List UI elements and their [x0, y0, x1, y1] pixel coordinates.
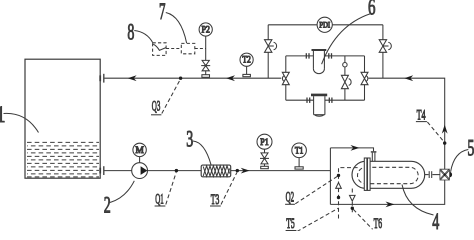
- label T5: [286, 216, 297, 232]
- dashed impulse line 8 to 7: [166, 48, 181, 50]
- instrument P1 with gauge valve: [257, 134, 272, 169]
- junction dot T4: [443, 141, 446, 144]
- label T3: [210, 192, 221, 208]
- tank liquid fill: [27, 142, 99, 177]
- label Q3: [151, 98, 161, 115]
- leader T3 (dashed): [221, 172, 237, 204]
- filter F-lower: [311, 95, 327, 116]
- probe arrow (hollow, up): [336, 183, 342, 189]
- leader T6 (dashed): [353, 209, 372, 229]
- valve V-filter-left: [282, 72, 289, 84]
- leader T5 (dashed): [297, 208, 339, 231]
- junction dot Q1: [175, 169, 178, 172]
- filter F-upper (element 6): [312, 50, 327, 74]
- wire heater to chamber: [231, 170, 331, 172]
- instrument T2: [240, 53, 253, 77]
- svg-text:Q3: Q3: [152, 98, 161, 114]
- vessel top nozzle: [371, 151, 377, 161]
- wire filter loop left vertical: [285, 56, 287, 100]
- svg-text:PDI: PDI: [319, 21, 330, 30]
- leader T4 (dashed): [427, 122, 444, 142]
- flow arrow left 2: [226, 75, 235, 81]
- svg-text:5: 5: [467, 136, 474, 161]
- vessel outlet nozzle: [425, 171, 440, 178]
- tank T (reservoir shell): [25, 59, 100, 178]
- valve V-filter-right: [361, 72, 368, 84]
- filter F-upper flanges: [306, 53, 331, 58]
- label Q2: [285, 189, 295, 205]
- wire filter loop lower branch: [286, 99, 365, 101]
- component 8 (dashed box with diagonal): [153, 43, 167, 56]
- wire return pipe left: [105, 77, 282, 79]
- vessel 4 shell: [352, 161, 425, 188]
- svg-text:P2: P2: [201, 24, 210, 34]
- wire return pipe right: [369, 78, 445, 169]
- wire bypass left vertical: [267, 25, 269, 78]
- svg-text:T1: T1: [295, 145, 304, 155]
- svg-text:T2: T2: [242, 55, 251, 65]
- dashed probe line into vessel: [339, 168, 359, 219]
- wire top feed to vessel: [330, 148, 373, 151]
- label 6 leader: [322, 14, 371, 64]
- label 3 leader: [193, 141, 211, 165]
- svg-text:T4: T4: [417, 107, 426, 123]
- svg-text:4: 4: [432, 209, 439, 231]
- flow arrow up: [442, 125, 448, 134]
- label T4: [416, 107, 427, 123]
- svg-text:Q1: Q1: [155, 192, 164, 208]
- svg-text:M: M: [135, 146, 144, 156]
- wire bypass loop top: [268, 24, 383, 26]
- flow arrow left 1: [128, 75, 137, 81]
- wire pump to heater: [147, 170, 201, 172]
- valve V-vent: [341, 75, 351, 88]
- pump 2 with motor M: [132, 143, 148, 178]
- flow arrow right 1: [241, 168, 250, 174]
- valve V-bypass-right: [379, 40, 391, 53]
- junction dot Q3: [179, 77, 182, 80]
- wire filter loop upper branch: [286, 55, 365, 57]
- junction dot T6: [351, 207, 354, 210]
- vent sight glass circle: [343, 62, 347, 66]
- flow arrow right 3: [386, 202, 395, 208]
- svg-text:Q2: Q2: [286, 189, 295, 205]
- vessel inner liner (dashed): [358, 167, 419, 183]
- instrument P2 with gauge valve: [199, 23, 212, 77]
- filter F-lower flanges: [307, 98, 332, 103]
- svg-text:P1: P1: [260, 137, 269, 147]
- junction dot T5: [337, 196, 340, 199]
- svg-text:8: 8: [127, 19, 134, 44]
- vessel flange plates: [364, 158, 370, 190]
- drain arrow (hollow, down): [350, 195, 356, 201]
- svg-text:1: 1: [0, 102, 6, 127]
- flow arrow left 3: [404, 75, 413, 81]
- wire left manifold vertical: [329, 148, 331, 205]
- wire valve5 bottom to bottom manifold: [330, 180, 444, 204]
- wire vent stub: [344, 56, 346, 100]
- dashed drain line below vessel: [351, 189, 353, 215]
- junction dot T3: [236, 169, 239, 172]
- svg-text:2: 2: [104, 192, 111, 217]
- svg-text:T5: T5: [286, 216, 295, 231]
- label T6: [374, 216, 383, 232]
- label 5 leader: [451, 150, 469, 172]
- label 1 leader: [4, 113, 39, 132]
- label 7 leader: [166, 13, 187, 44]
- instrument PDI: [317, 17, 332, 32]
- wire suction pipe: [104, 170, 132, 172]
- label 4 leader: [402, 185, 434, 216]
- svg-text:3: 3: [186, 126, 193, 151]
- valve V-bypass-left: [265, 40, 277, 53]
- label 8 leader: [134, 31, 153, 43]
- svg-text:T6: T6: [374, 216, 383, 231]
- flow arrow right 2: [351, 145, 360, 151]
- dashed impulse line 7 to P2: [195, 48, 206, 50]
- instrument T1: [292, 143, 307, 169]
- leader Q2 (dashed): [295, 176, 337, 203]
- label 2 leader: [110, 181, 134, 203]
- component 7 (dashed box): [181, 43, 195, 53]
- valve 5 (four-way): [440, 169, 452, 180]
- svg-text:6: 6: [368, 0, 376, 20]
- leader Q1 (dashed): [166, 172, 176, 204]
- junction dot Q2: [337, 174, 340, 177]
- wire filter loop right vertical: [364, 56, 366, 100]
- svg-text:7: 7: [159, 0, 166, 24]
- label Q1: [155, 192, 166, 208]
- heater 3: [201, 165, 231, 177]
- tank top nozzle flange: [100, 74, 104, 83]
- tank bottom nozzle flange: [100, 166, 104, 175]
- wire bypass right vertical: [382, 25, 384, 78]
- leader Q3 (dashed): [162, 80, 180, 114]
